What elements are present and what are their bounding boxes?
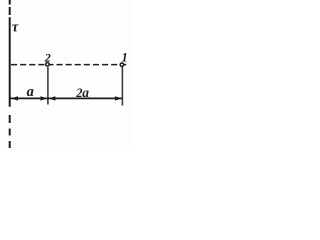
svg-text:1: 1	[122, 51, 128, 65]
svg-text:a: a	[27, 84, 34, 100]
svg-text:2: 2	[44, 50, 51, 64]
svg-text:τ: τ	[12, 19, 19, 35]
svg-text:a: a	[82, 85, 89, 100]
